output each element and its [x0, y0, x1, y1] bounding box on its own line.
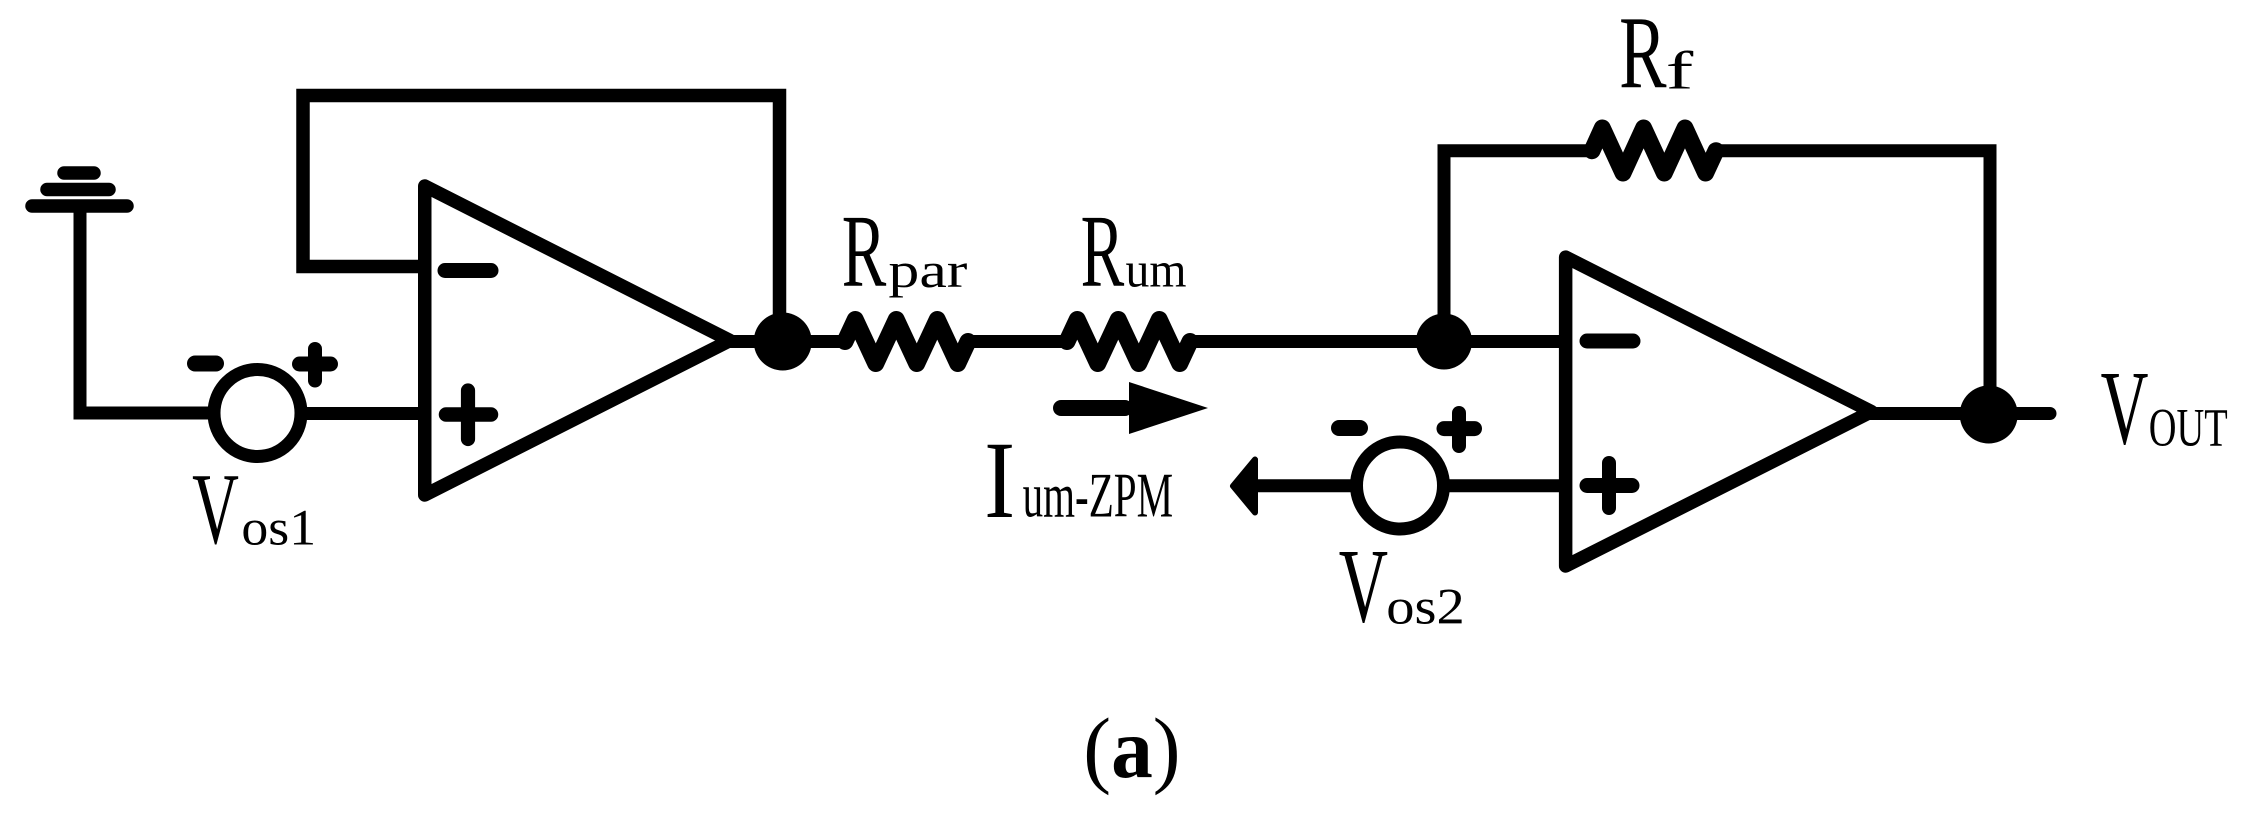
svg-text:par: par	[888, 242, 967, 298]
svg-text:um-ZPM: um-ZPM	[1023, 460, 1174, 531]
svg-text:V: V	[1339, 528, 1388, 645]
svg-text:V: V	[2101, 350, 2149, 467]
svg-text:um: um	[1126, 242, 1187, 298]
svg-text:R: R	[1081, 194, 1125, 309]
svg-text:(a): (a)	[1083, 700, 1180, 796]
svg-text:R: R	[1619, 0, 1667, 111]
svg-text:I: I	[984, 419, 1015, 541]
svg-text:f: f	[1666, 41, 1694, 101]
svg-text:os2: os2	[1386, 579, 1465, 635]
svg-text:V: V	[192, 453, 239, 566]
svg-text:R: R	[842, 194, 887, 309]
svg-text:os1: os1	[241, 501, 316, 557]
svg-text:OUT: OUT	[2149, 398, 2228, 458]
